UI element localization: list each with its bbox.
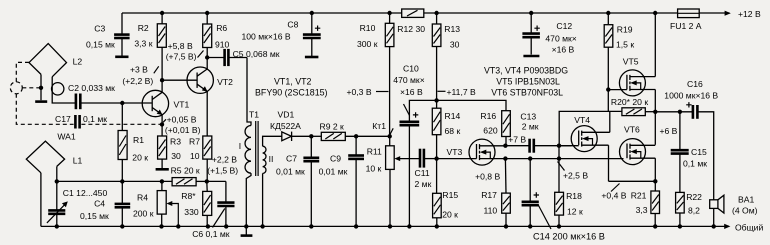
svg-text:FU1 2 А: FU1 2 А <box>670 21 702 31</box>
wire C2 to VT1 base <box>81 102 152 104</box>
transistor VT5 (MOSFET) <box>608 70 655 96</box>
svg-text:+0,05 В: +0,05 В <box>167 115 197 125</box>
svg-text:C9: C9 <box>330 154 341 164</box>
node R21 bottom <box>653 224 657 228</box>
node R18 bottom <box>557 224 561 228</box>
wire dashed plug to L2 tap <box>22 87 39 89</box>
svg-text:0,15 мк: 0,15 мк <box>80 211 109 221</box>
node BA1 bottom <box>712 224 716 228</box>
svg-text:+3 В: +3 В <box>130 65 148 75</box>
svg-text:+12 В: +12 В <box>738 9 761 19</box>
svg-text:620: 620 <box>483 126 498 136</box>
svg-text:+0,4 В: +0,4 В <box>601 191 626 201</box>
resistor R16 <box>502 111 511 146</box>
capacitor C10 (electrolytic) <box>400 100 437 226</box>
resistor R7 <box>203 136 212 181</box>
svg-text:3,3: 3,3 <box>636 205 648 215</box>
svg-text:12 к: 12 к <box>567 206 583 216</box>
wire L1 right lead down <box>56 166 58 209</box>
svg-text:+5,8 В: +5,8 В <box>168 41 193 51</box>
node R22 bottom <box>678 224 682 228</box>
svg-text:68 к: 68 к <box>445 126 461 136</box>
svg-text:2 мк: 2 мк <box>522 122 539 132</box>
node VT2 emitter / R5 / R8 <box>205 179 209 183</box>
node R17 bottom <box>504 224 508 228</box>
svg-text:C10: C10 <box>403 63 419 73</box>
svg-text:C3: C3 <box>94 24 105 34</box>
node R6 top <box>205 11 209 15</box>
capacitor C3 <box>114 13 130 56</box>
node T1 secondary bottom <box>260 224 264 228</box>
svg-text:L2: L2 <box>73 57 83 67</box>
wire L2 left lead <box>40 74 42 100</box>
variable capacitor C1 <box>47 201 68 226</box>
svg-text:BA1: BA1 <box>738 195 754 205</box>
node VT3 gate / C11 / R15 <box>434 156 438 160</box>
node C17 to VT1 emitter <box>160 122 164 126</box>
node R4 wiper bottom <box>176 224 180 228</box>
svg-text:R19: R19 <box>617 25 633 35</box>
wire gate node to VT3 <box>437 158 477 160</box>
svg-text:R4: R4 <box>137 192 148 202</box>
svg-text:R12 30: R12 30 <box>397 24 425 34</box>
transistor VT6 (MOSFET) <box>620 139 656 165</box>
node C7 bottom <box>309 224 313 228</box>
svg-text:8,2: 8,2 <box>688 206 700 216</box>
labels top row <box>86 9 761 62</box>
node T1 primary bottom <box>244 224 248 228</box>
svg-text:0,1 мк: 0,1 мк <box>683 159 707 169</box>
transistor VT3 (MOSFET) <box>469 139 505 165</box>
node C4 bottom <box>120 224 124 228</box>
node R2 top <box>160 11 164 15</box>
svg-text:×16 В: ×16 В <box>552 44 575 54</box>
diode VD1 <box>282 132 312 141</box>
ground (C12) <box>523 55 539 58</box>
svg-text:C16: C16 <box>687 79 703 89</box>
node VT5 gate / R19 <box>606 87 610 91</box>
transformer T1 secondary winding II <box>263 136 282 226</box>
svg-text:+2,5 В: +2,5 В <box>563 171 588 181</box>
wire VT3 source bus <box>505 158 623 160</box>
svg-text:100 мк×16 В: 100 мк×16 В <box>242 32 291 42</box>
svg-text:R1: R1 <box>133 135 144 145</box>
svg-text:0,01 мк: 0,01 мк <box>276 167 305 177</box>
capacitor C4 <box>115 181 131 226</box>
svg-text:+7 В: +7 В <box>508 135 526 145</box>
node VD1 out / C7 <box>309 134 313 138</box>
svg-text:470 мк×: 470 мк× <box>393 75 424 85</box>
svg-text:+0,3 В: +0,3 В <box>347 87 372 97</box>
svg-text:470 мк×: 470 мк× <box>545 33 576 43</box>
svg-text:+0,8 В: +0,8 В <box>475 171 500 181</box>
svg-text:C6 0,1 мк: C6 0,1 мк <box>192 229 230 239</box>
capacitor C12 (electrolytic) <box>522 13 540 55</box>
svg-text:+6 В: +6 В <box>660 126 678 136</box>
labels middle block <box>239 63 605 241</box>
node VT4 gate / C13 <box>557 144 561 148</box>
node VT3 source / R17 / C14 <box>503 156 507 160</box>
svg-text:VT1: VT1 <box>174 99 190 109</box>
svg-text:×16 В: ×16 В <box>400 87 423 97</box>
labels left block <box>55 51 238 240</box>
wire emitter node to C6 <box>207 180 226 182</box>
node L2 tap dashed junction <box>39 86 43 90</box>
svg-text:R3: R3 <box>170 136 181 146</box>
+12V arrow <box>725 11 731 16</box>
svg-text:WA1: WA1 <box>57 132 76 142</box>
capacitor C8 (electrolytic) <box>303 13 321 56</box>
capacitor C9 <box>348 136 364 226</box>
svg-text:VT3: VT3 <box>447 147 463 157</box>
node R13 top <box>434 11 438 15</box>
wire VT6 source down <box>654 158 656 181</box>
svg-text:R8*: R8* <box>181 191 196 201</box>
wire VT4 drain riser <box>609 111 611 132</box>
svg-text:R17: R17 <box>481 190 497 200</box>
svg-text:R18: R18 <box>566 191 582 201</box>
ground (main, below rail) <box>241 226 253 235</box>
svg-text:R22: R22 <box>686 192 702 202</box>
svg-text:(+1,5 В): (+1,5 В) <box>207 166 238 176</box>
wire VT5 source to R20 node <box>654 90 656 145</box>
svg-text:(+2,2 В): (+2,2 В) <box>122 76 153 86</box>
wire common bottom rail <box>41 225 729 227</box>
svg-text:R10: R10 <box>360 23 376 33</box>
resistor R13 <box>432 13 441 100</box>
resistor R21 <box>651 181 660 226</box>
svg-text:VD1: VD1 <box>278 110 295 120</box>
loop antenna L2 (frame) <box>29 44 67 77</box>
transformer T1 core <box>256 121 258 176</box>
node R13/R14/C10/R16 <box>434 98 438 102</box>
resistor R6 <box>203 13 212 58</box>
node C14 top <box>528 156 532 160</box>
resistor R19 <box>604 13 613 112</box>
label leader C6 <box>213 209 225 228</box>
transformer T1 primary winding I <box>245 126 251 227</box>
wire output bus to C16 <box>655 111 692 113</box>
node C15 top <box>678 110 682 114</box>
label leader C14 <box>538 205 551 230</box>
wire L1 left lead to rail <box>40 173 42 227</box>
potentiometer R5 <box>172 178 207 186</box>
svg-text:VT6: VT6 <box>624 124 640 134</box>
capacitor C13 <box>505 139 571 153</box>
svg-text:330: 330 <box>184 207 199 217</box>
svg-text:R6: R6 <box>216 23 227 33</box>
node R1/C4/tank wire <box>120 179 124 183</box>
node VT3 drain / R16 / C13 <box>503 144 507 148</box>
potentiometer R4 <box>157 181 178 226</box>
speaker BA1 <box>710 195 724 226</box>
svg-text:R11: R11 <box>367 147 382 157</box>
node C9 bottom <box>354 224 358 228</box>
svg-text:C7: C7 <box>286 154 297 164</box>
ground (R3) <box>156 168 169 171</box>
resistor R10 <box>385 13 394 136</box>
node R18 top <box>557 156 561 160</box>
node base/R1 junction <box>120 101 124 105</box>
antenna jack X1 (dashed plug circle) <box>10 82 22 94</box>
svg-text:910: 910 <box>215 39 230 49</box>
svg-text:T1: T1 <box>249 110 259 120</box>
svg-text:+2,2 В: +2,2 В <box>212 155 237 165</box>
wire VT4 source down to VT6 gate and R21 bus <box>608 145 610 181</box>
wire dashed external antenna path <box>16 62 160 124</box>
ground (C3) <box>115 55 128 58</box>
wire C5 down to T1 primary <box>247 58 251 126</box>
ground (C8) <box>305 56 319 59</box>
svg-text:R9 2 к: R9 2 к <box>320 122 345 132</box>
common rail arrow <box>724 224 730 229</box>
wire tank node to R1/C4/R4 <box>57 180 172 182</box>
svg-text:(+7,5 В): (+7,5 В) <box>166 51 197 61</box>
node C6 bottom <box>224 224 228 228</box>
capacitor C14 (electrolytic) <box>522 159 539 227</box>
svg-text:(+0,01 В): (+0,01 В) <box>165 125 201 135</box>
svg-text:300 к: 300 к <box>357 39 378 49</box>
svg-text:C12: C12 <box>556 21 572 31</box>
svg-text:0,15 мк: 0,15 мк <box>86 39 115 49</box>
svg-text:10 к: 10 к <box>366 163 382 173</box>
svg-text:BFY90 (2SC1815): BFY90 (2SC1815) <box>255 87 328 97</box>
resistor R15 <box>433 159 442 227</box>
svg-text:0,01 мк: 0,01 мк <box>319 167 348 177</box>
node C1 bottom <box>55 224 59 228</box>
svg-text:R5 20 к: R5 20 к <box>171 166 200 176</box>
svg-text:C2 0,033 мк: C2 0,033 мк <box>68 83 115 93</box>
svg-text:R2: R2 <box>138 23 149 33</box>
svg-text:200 к: 200 к <box>133 208 154 218</box>
node VT1 collector / VT2 base <box>160 78 164 82</box>
svg-text:R13: R13 <box>444 24 460 34</box>
node tank to R1 wire <box>55 179 59 183</box>
svg-text:1,5 к: 1,5 к <box>616 40 634 50</box>
resistor R22 <box>676 192 685 226</box>
potentiometer R11 <box>386 136 420 226</box>
svg-text:(4 Ом): (4 Ом) <box>732 206 758 216</box>
svg-text:VT1, VT2: VT1, VT2 <box>274 77 312 87</box>
node R10 top <box>387 11 391 15</box>
capacitor C5 <box>207 49 247 66</box>
svg-text:R7: R7 <box>189 136 200 146</box>
resistor R8 <box>203 181 212 226</box>
svg-text:R20* 20 к: R20* 20 к <box>611 97 648 107</box>
node VT5 drain rail <box>653 11 657 15</box>
node R20 / VT5 source / C16 bus <box>653 110 657 114</box>
resistor R18 <box>555 146 564 227</box>
svg-text:Кт1: Кт1 <box>372 121 386 131</box>
svg-text:R14: R14 <box>445 111 461 121</box>
svg-text:30: 30 <box>450 40 460 50</box>
svg-text:VT2: VT2 <box>217 77 233 87</box>
transistor VT1 <box>142 80 168 136</box>
loop antenna L1 (frame WA1) <box>26 141 64 173</box>
svg-text:I: I <box>239 141 241 151</box>
node R4 top <box>160 179 164 183</box>
fuse FU1 <box>678 9 700 18</box>
svg-text:20 к: 20 к <box>132 153 148 163</box>
antenna socket X2 (solid circle on L2 lead) <box>52 83 64 95</box>
wire VT5 drain to rail <box>654 13 656 77</box>
node R19 top <box>606 11 610 15</box>
svg-text:R16: R16 <box>480 111 496 121</box>
svg-text:2 мк: 2 мк <box>415 179 432 189</box>
node R8 bottom <box>206 224 210 228</box>
svg-text:+11,7 В: +11,7 В <box>447 87 476 97</box>
resistor R1 <box>118 103 127 181</box>
svg-text:R15: R15 <box>442 190 458 200</box>
resistor R17 <box>502 159 511 227</box>
labels output block <box>558 57 764 233</box>
transistor VT2 <box>187 58 213 137</box>
capacitor C7 <box>303 136 319 226</box>
svg-text:VT3, VT4 P0903BDG: VT3, VT4 P0903BDG <box>484 65 568 75</box>
svg-text:C11: C11 <box>415 168 430 178</box>
resistor R2 <box>157 13 166 80</box>
resistor R14 <box>432 100 441 158</box>
wire +12V top rail left segment <box>122 12 730 14</box>
capacitor C17 (in dashed path) <box>75 115 79 129</box>
svg-text:КД522А: КД522А <box>270 121 301 131</box>
node R15 bottom <box>435 224 439 228</box>
svg-text:C4: C4 <box>94 199 105 209</box>
svg-text:0,1 мк: 0,1 мк <box>83 114 107 124</box>
node Kt1 control point <box>388 128 394 138</box>
svg-text:VT5: VT5 <box>623 57 639 67</box>
node R11 bottom <box>388 224 392 228</box>
svg-text:VT5 IPB15N03L: VT5 IPB15N03L <box>496 77 560 87</box>
wire VT1 collector to VT2 base <box>162 79 197 81</box>
transistor VT4 (MOSFET) <box>561 126 610 152</box>
svg-text:C1 12...450: C1 12...450 <box>63 188 108 198</box>
node C12 top <box>529 11 533 15</box>
capacitor C2 <box>76 94 80 110</box>
svg-text:VT6 STB70NF03L: VT6 STB70NF03L <box>491 88 563 98</box>
wire L2 right lead to C2 <box>52 77 75 103</box>
wire node to R16 <box>437 100 506 110</box>
svg-text:110: 110 <box>484 205 498 215</box>
wire VT4 gate to R20 bus <box>559 111 622 145</box>
capacitor C6 <box>217 181 234 226</box>
svg-text:C17: C17 <box>55 114 71 124</box>
capacitor C15 <box>671 112 689 193</box>
resistor R9 <box>311 132 389 140</box>
capacitor C16 (electrolytic) <box>686 102 714 200</box>
svg-text:II: II <box>269 154 274 164</box>
wire VT6 source bus <box>609 180 656 182</box>
node C8 top <box>310 11 314 15</box>
node VT2 collector / C5 <box>205 55 209 59</box>
node VT6 source / R21 <box>653 179 657 183</box>
svg-text:C5 0,068 мк: C5 0,068 мк <box>233 49 280 59</box>
svg-text:L1: L1 <box>73 156 83 166</box>
ground (L2 left lead) <box>35 100 47 103</box>
svg-text:C15: C15 <box>691 147 707 157</box>
resistor R3 <box>158 136 167 168</box>
svg-text:20 к: 20 к <box>442 210 458 220</box>
node C14 bottom <box>528 224 532 228</box>
resistor R12 (in rail) <box>402 9 424 17</box>
svg-text:Общий: Общий <box>735 222 763 232</box>
node C9 top <box>354 134 358 138</box>
svg-text:VT4: VT4 <box>574 115 590 125</box>
svg-text:C8: C8 <box>287 20 298 30</box>
svg-text:10: 10 <box>190 151 200 161</box>
svg-text:C14 200 мк×16 В: C14 200 мк×16 В <box>533 231 605 241</box>
node C10 bottom <box>407 224 411 228</box>
svg-text:R21: R21 <box>631 191 647 201</box>
svg-text:30: 30 <box>171 151 181 161</box>
resistor R20 <box>622 108 655 116</box>
capacitor C11 <box>420 149 437 168</box>
svg-text:1000 мк×16 В: 1000 мк×16 В <box>664 91 718 101</box>
svg-text:3,3 к: 3,3 к <box>134 39 152 49</box>
node R4 bottom <box>159 224 163 228</box>
svg-text:C13: C13 <box>520 111 536 121</box>
